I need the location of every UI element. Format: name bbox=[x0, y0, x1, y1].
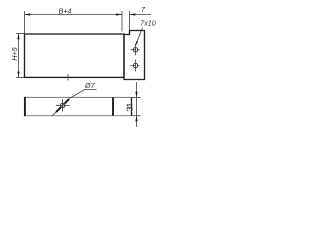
side view slot 1 centerline horizontal bbox=[131, 49, 141, 51]
top view bend line bbox=[112, 97, 114, 115]
top view top edge bbox=[25, 96, 132, 98]
hole slash thick segment lower bbox=[56, 108, 60, 112]
svg-text:H+5: H+5 bbox=[10, 46, 19, 60]
side view plate outline bbox=[124, 31, 145, 80]
svg-text:Ø7: Ø7 bbox=[84, 81, 96, 90]
svg-text:B+4: B+4 bbox=[59, 6, 72, 15]
top view right edge bbox=[131, 97, 133, 115]
top view bottom edge bbox=[25, 115, 132, 117]
front view hole centerline tick bbox=[67, 74, 69, 81]
top view hole centerline vertical bbox=[62, 99, 64, 112]
dimension 31 line bbox=[136, 82, 138, 127]
top view hole circle bbox=[60, 103, 65, 108]
dimension H+5 extension line top bbox=[16, 33, 25, 35]
dimension B+4 arrow right bbox=[116, 13, 122, 15]
side view slot 2 circle bbox=[133, 63, 137, 67]
side view slot 2 centerline vertical bbox=[135, 60, 137, 72]
dimension B+4 extension line right bbox=[121, 11, 123, 32]
dimension H+5 arrow top bbox=[17, 34, 19, 40]
dimension 7 line tail bbox=[130, 14, 152, 16]
dimension H+5 line bbox=[18, 34, 20, 78]
dimension 7 extension line bbox=[129, 11, 131, 31]
dimension H+5 extension line bottom bbox=[16, 76, 25, 78]
dimension B+4 arrow left bbox=[25, 13, 31, 15]
dimension 31 arrow top bbox=[135, 92, 137, 98]
leader line 7x10 bbox=[135, 28, 142, 46]
side view slot 1 circle bbox=[133, 48, 137, 52]
side view slot 1 centerline vertical bbox=[135, 44, 137, 56]
dimension B+4 extension line left bbox=[24, 11, 26, 34]
leader line for diameter 7 bbox=[70, 90, 97, 99]
dimension 31 extension line bottom bbox=[132, 115, 141, 117]
dimension 7 arrow bbox=[130, 13, 136, 15]
top view thick left edge bbox=[24, 97, 26, 116]
top view hole centerline horizontal bbox=[56, 105, 70, 107]
hole slash line bbox=[52, 98, 70, 116]
side view slot 2 centerline horizontal bbox=[131, 65, 141, 67]
dimension 31 extension line top bbox=[132, 96, 141, 98]
dimension B+4 line bbox=[25, 14, 123, 16]
leader 7x10 arrow bbox=[135, 41, 138, 46]
dimension H+5 arrow bottom bbox=[17, 72, 19, 78]
front view outline bbox=[25, 34, 125, 77]
hole slash thick segment upper bbox=[65, 99, 69, 103]
dimension 31 label bbox=[127, 105, 132, 111]
svg-text:7x10: 7x10 bbox=[140, 18, 156, 27]
dimension 31 arrow bottom bbox=[135, 116, 137, 122]
